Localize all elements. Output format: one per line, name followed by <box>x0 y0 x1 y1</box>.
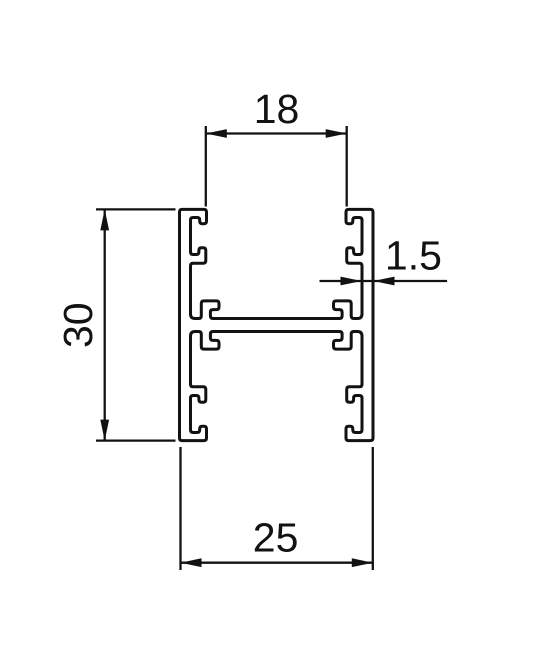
dimension 18 (top): value label <box>254 86 300 132</box>
dimension 25 (bottom): left arrowhead <box>181 558 202 567</box>
dimension 18 (top): dimension line <box>206 132 347 134</box>
svg-text:25: 25 <box>253 515 299 561</box>
dimension 18 (top): right arrowhead <box>326 129 347 138</box>
aluminium H-profile cross-section outline <box>180 209 374 440</box>
dimension 18 (top): left arrowhead <box>206 129 227 138</box>
dimension 1.5: left arrowhead pointing right <box>341 277 362 286</box>
svg-text:1.5: 1.5 <box>385 233 442 279</box>
dimension 1.5: value label <box>385 233 442 279</box>
dimension 30 (left): extension line bottom <box>96 439 176 441</box>
dimension 1.5: right arrowhead pointing left <box>374 277 395 286</box>
dimension 18 (top): extension line left <box>205 126 207 207</box>
dimension 30 (left): extension line top <box>96 208 176 210</box>
dimension 30 (left): bottom arrowhead <box>100 420 109 441</box>
dimension 30 (left): dimension line <box>104 209 106 440</box>
svg-text:18: 18 <box>254 86 300 132</box>
dimension 25 (bottom): extension line right <box>372 447 374 570</box>
dimension 25 (bottom): extension line left <box>179 447 181 570</box>
dimension 30 (left): top arrowhead <box>100 209 109 230</box>
dimension 25 (bottom): value label <box>253 515 299 561</box>
dimension 25 (bottom): right arrowhead <box>352 558 373 567</box>
svg-text:30: 30 <box>55 302 101 348</box>
dimension 25 (bottom): dimension line <box>181 562 373 564</box>
dimension 1.5 (wall thickness): leader line <box>320 280 448 282</box>
dimension 18 (top): extension line right <box>346 126 348 207</box>
dimension 30 (left): value label (rotated) <box>55 302 101 348</box>
